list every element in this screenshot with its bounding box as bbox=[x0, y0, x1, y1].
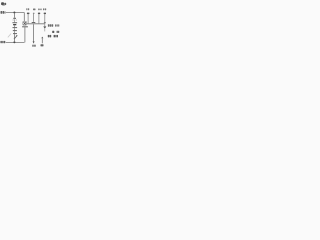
wire: top rail bbox=[6, 12, 24, 14]
dark cell bbox=[13, 24, 16, 25]
diode D1 on right drop bbox=[43, 24, 46, 31]
holder outline sides bbox=[12, 19, 15, 20]
right caption line 2 bbox=[52, 31, 59, 33]
plate bbox=[13, 32, 17, 35]
label above T1 bbox=[26, 8, 29, 10]
lead bbox=[14, 19, 16, 22]
wire: long center drop bbox=[33, 24, 35, 42]
lead bbox=[14, 31, 16, 33]
terminal stub T3 bbox=[38, 13, 40, 24]
label under center drop bbox=[32, 45, 35, 47]
label above T3 bbox=[38, 9, 41, 11]
plate bbox=[12, 21, 17, 24]
label above T2 bbox=[33, 9, 36, 11]
adjustment arrow (faint) bbox=[8, 34, 11, 38]
wire: bottom rail bbox=[6, 41, 25, 43]
left input label (bottom) bbox=[0, 41, 5, 43]
terminal stub T1 bbox=[27, 13, 30, 24]
right caption line 3 bbox=[48, 35, 58, 38]
right caption line 1 bbox=[48, 24, 59, 27]
output arrow stub bbox=[41, 37, 43, 44]
bar under box bbox=[22, 26, 28, 27]
wire: common horizontal bus bbox=[27, 23, 45, 25]
label above T4 bbox=[43, 8, 46, 10]
component stack B1 (left branch) bbox=[12, 13, 17, 42]
arrowhead at center drop end bbox=[33, 41, 35, 43]
plate bbox=[13, 29, 17, 32]
wire bottom lead bbox=[13, 34, 15, 42]
wire: left-loop lower vertical bbox=[24, 27, 26, 42]
plate bbox=[13, 26, 18, 29]
wire: top-rail corner drop bbox=[23, 13, 25, 22]
label "ac" top-left bbox=[1, 2, 6, 5]
lead bbox=[14, 28, 16, 30]
adjustment arrow (dark tip) bbox=[14, 36, 17, 40]
junction dot on bottom rail bbox=[13, 41, 15, 43]
terminal stub T4 with junction blob bbox=[44, 13, 46, 24]
left input label (top) bbox=[1, 11, 6, 14]
junction dot on top rail bbox=[13, 12, 15, 14]
fuse/meter box with X bbox=[23, 21, 27, 25]
wire top lead bbox=[13, 13, 15, 18]
lead bbox=[14, 25, 16, 27]
terminal stub T2 with capacitor plate bbox=[32, 13, 36, 23]
plate bbox=[13, 18, 16, 19]
label under output arrow stub bbox=[41, 44, 44, 46]
